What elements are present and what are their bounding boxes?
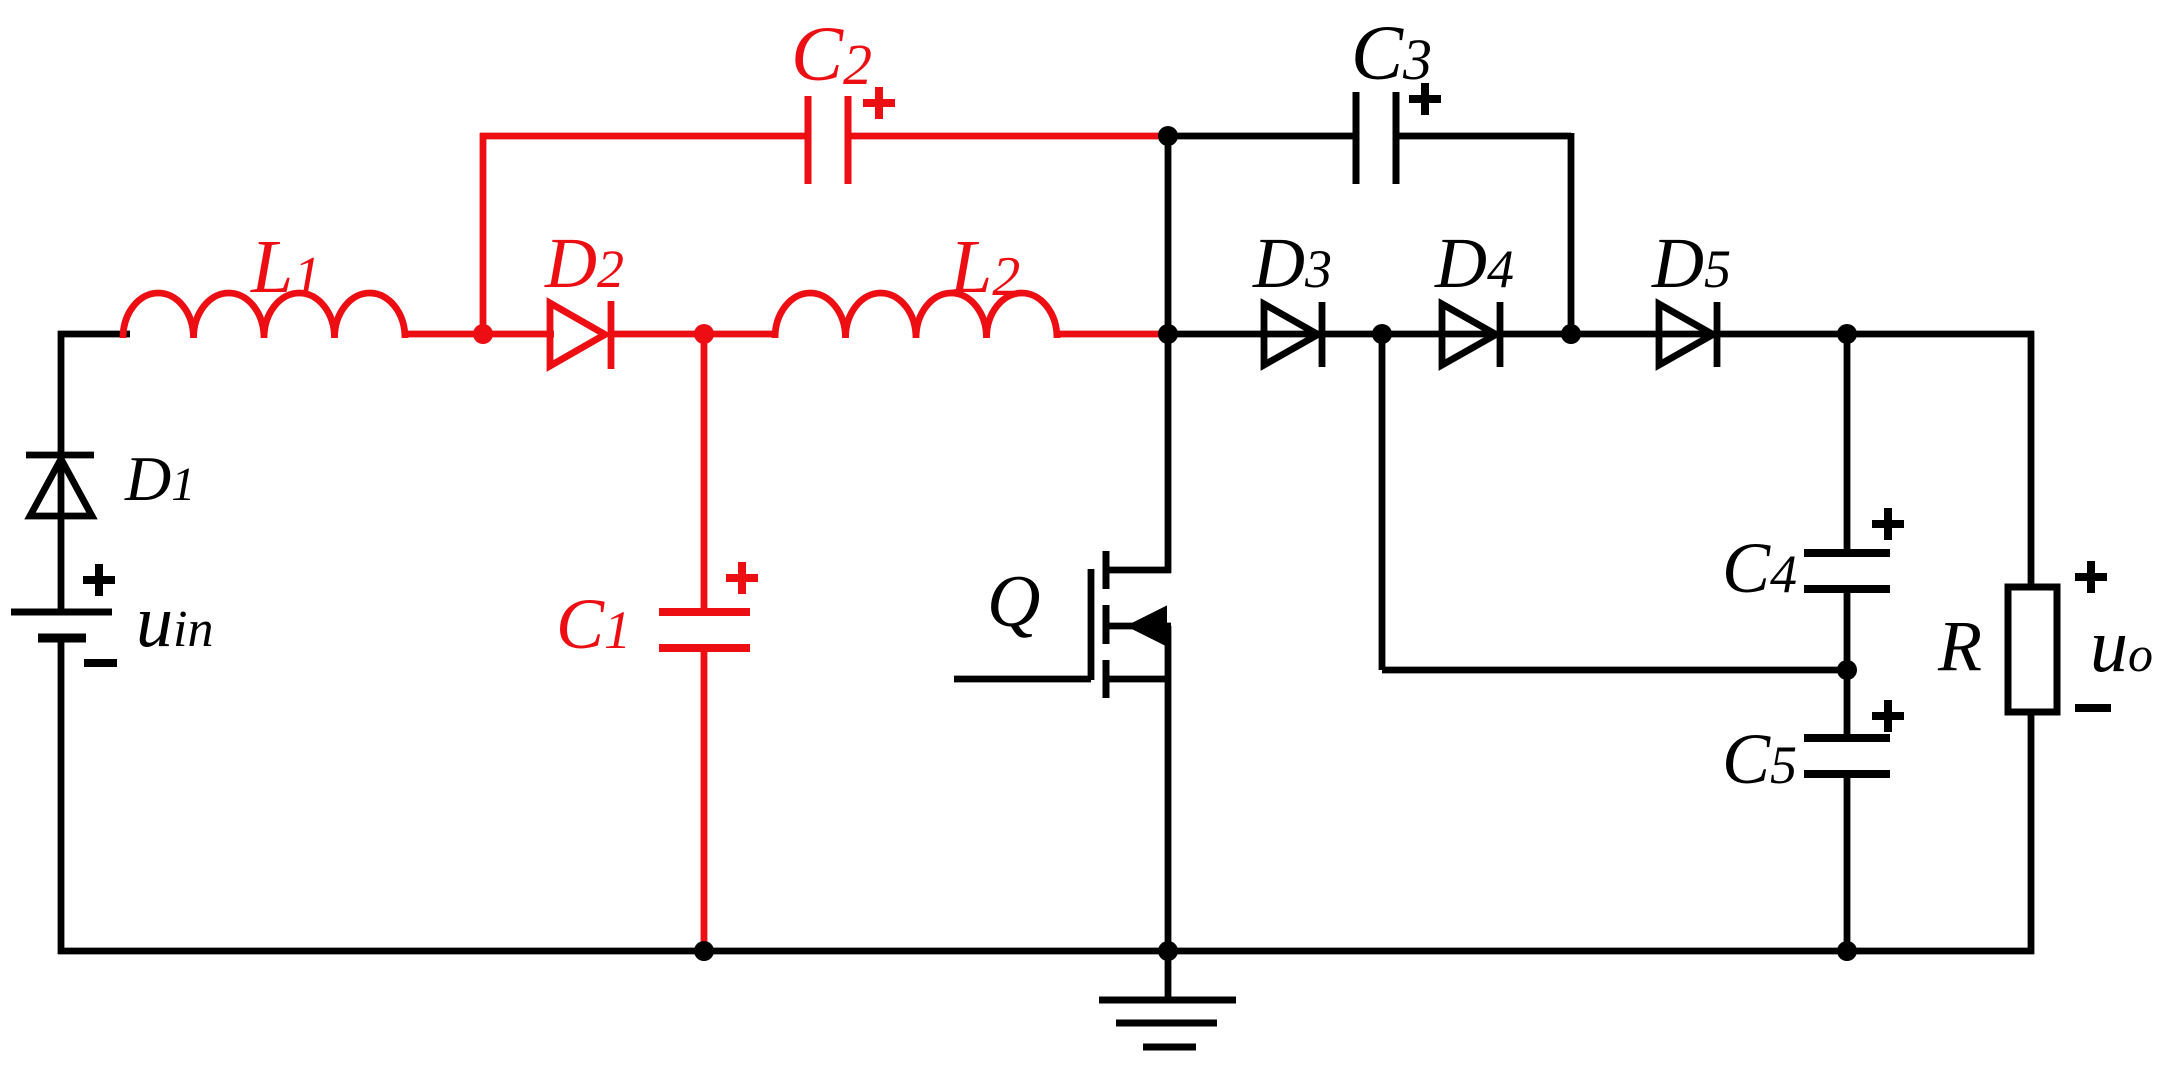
svg-text:C5: C5 xyxy=(1722,719,1797,799)
node: junction D4/D5 where C3 branch lands xyxy=(1561,324,1581,344)
wire: source vertical down to bottom rail xyxy=(1165,626,1172,951)
channel dash bottom xyxy=(1103,660,1110,698)
polarity + of output xyxy=(2075,561,2107,593)
polarity - of battery xyxy=(84,659,117,667)
capacitor C3 xyxy=(1356,92,1396,184)
wire: black top wire C3 right plate to corner xyxy=(1396,133,1571,140)
wire: red vertical branch up to C2 xyxy=(480,133,487,334)
inductor L1 xyxy=(123,293,405,338)
svg-text:uin: uin xyxy=(136,581,213,663)
wire: black left stub from left rail to L1 xyxy=(58,331,130,338)
node: bottom rail at C5 xyxy=(1837,941,1857,961)
inductor L2 xyxy=(775,293,1057,338)
capacitor C2 xyxy=(808,96,848,184)
capacitor C4 xyxy=(1804,553,1890,589)
capacitor C5 xyxy=(1804,738,1890,774)
battery uin xyxy=(11,612,112,638)
node: main line at MOSFET branch xyxy=(1158,324,1178,344)
wire: vertical from C5 down to bottom rail xyxy=(1844,774,1851,951)
drain horizontal xyxy=(1106,567,1171,574)
svg-text:Q: Q xyxy=(987,561,1040,643)
svg-text:D4: D4 xyxy=(1434,223,1514,303)
transistor Q (MOSFET) xyxy=(954,334,1171,951)
wire: red main line L1 to D2 xyxy=(405,331,554,338)
wire: vertical from top node down to main line xyxy=(1165,136,1172,334)
capacitor C1 xyxy=(659,334,750,948)
node: C4/C5 midpoint xyxy=(1837,660,1857,680)
svg-text:C2: C2 xyxy=(791,10,872,97)
svg-text:C4: C4 xyxy=(1722,528,1797,608)
wire: red main line L2 to MOSFET node xyxy=(1057,331,1168,338)
svg-text:L2: L2 xyxy=(949,225,1020,309)
wire: left vertical rail xyxy=(58,331,65,612)
node: bottom rail at MOSFET source xyxy=(1158,941,1178,961)
svg-text:D5: D5 xyxy=(1651,223,1731,303)
polarity + of battery xyxy=(83,564,115,596)
node: junction D3/D4 with branch down xyxy=(1372,324,1392,344)
wire: right vertical rail bottom xyxy=(2028,705,2035,954)
diode D3 xyxy=(1264,302,1322,367)
node: junction D5 output / C4 branch xyxy=(1837,324,1857,344)
svg-text:D1: D1 xyxy=(124,443,195,514)
polarity - of output xyxy=(2075,704,2111,712)
polarity + of C2 xyxy=(863,87,895,119)
polarity + of C4 xyxy=(1872,508,1904,540)
wire: bottom rail xyxy=(58,948,2034,955)
ground xyxy=(1099,951,1236,1047)
diode D5 xyxy=(1659,302,1717,367)
gate bar xyxy=(1088,569,1095,680)
wire: right vertical rail top xyxy=(2028,331,2035,590)
node: junction of D2, C1 branch, L2 xyxy=(694,324,714,344)
svg-text:D2: D2 xyxy=(544,223,624,303)
node: top node above MOSFET xyxy=(1158,126,1178,146)
diode D2 xyxy=(550,301,611,369)
wire: black main line from MOSFET node to right rail xyxy=(1168,331,2034,338)
resistor R xyxy=(2008,587,2057,712)
wire: vertical from D3/D4 node down xyxy=(1379,334,1386,670)
polarity + of C3 xyxy=(1409,83,1441,115)
diode D4 xyxy=(1442,302,1500,367)
wire: left vertical rail below battery xyxy=(58,638,65,954)
polarity + of C5 xyxy=(1872,700,1904,732)
body connection horizontal xyxy=(1106,623,1171,630)
svg-text:C1: C1 xyxy=(556,584,631,664)
diode D1 xyxy=(26,455,94,516)
svg-text:uo: uo xyxy=(2090,604,2153,688)
wire: drain vertical xyxy=(1165,334,1172,573)
wire: vertical between C4 and C5 xyxy=(1844,589,1851,738)
body diode arrow of Q xyxy=(1128,607,1166,645)
polarity + of C1 xyxy=(726,562,758,594)
wire: red top wire C2 right plate to top node xyxy=(848,133,1168,140)
wire: black top wire node to C3 left plate xyxy=(1168,133,1356,140)
channel dash middle xyxy=(1103,605,1110,644)
node: junction of L1, C2 branch, D2 xyxy=(473,324,493,344)
wire: horizontal from branch to C4/C5 midpoint xyxy=(1382,667,1847,674)
wire: red main line D2 to L2 xyxy=(610,331,778,338)
wire: vertical from D5 node down to C4 xyxy=(1844,334,1851,553)
svg-text:L1: L1 xyxy=(250,225,321,309)
wire: vertical from C3 down to main line xyxy=(1568,133,1575,334)
channel dash top xyxy=(1103,551,1110,589)
gate lead xyxy=(954,676,1091,683)
svg-text:D3: D3 xyxy=(1252,223,1332,303)
node: bottom rail at C1 xyxy=(694,941,714,961)
svg-text:C3: C3 xyxy=(1351,9,1432,96)
wire: red top wire to C2 left plate xyxy=(480,133,808,140)
source horizontal xyxy=(1106,676,1171,683)
svg-text:R: R xyxy=(1937,606,1982,686)
